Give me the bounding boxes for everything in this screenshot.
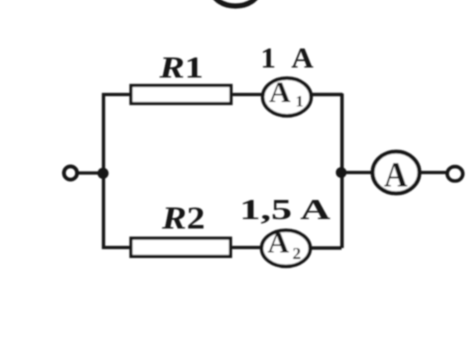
wire: top-left horizontal to R1 [102, 93, 132, 96]
node (left junction) [97, 168, 108, 179]
wire: T1 to left node [78, 171, 101, 174]
wire: A2 to right vertical [310, 246, 342, 249]
svg-text:1: 1 [296, 94, 304, 111]
ammeter A2 [262, 230, 311, 266]
svg-text:R2: R2 [161, 201, 205, 236]
wire: R2 to ammeter A2 [230, 246, 263, 249]
wire: R1 to ammeter A1 [231, 93, 265, 96]
resistor R1 [131, 86, 231, 104]
wire: bottom-left horizontal to R2 [102, 246, 132, 249]
svg-text:A: A [269, 76, 291, 109]
svg-text:A: A [268, 227, 290, 260]
wire: right node to ammeter A [342, 171, 375, 174]
cropped figure arc (top edge) [213, 0, 259, 6]
wire: right vertical branch [340, 94, 344, 249]
terminal T2 (right) [447, 167, 463, 181]
svg-text:1 A: 1 A [261, 44, 315, 75]
resistor R2 [131, 238, 231, 256]
svg-text:A: A [384, 155, 408, 195]
wire: left vertical branch [102, 93, 105, 249]
node (right junction) [336, 167, 347, 178]
ammeter A [373, 152, 420, 194]
svg-text:1,5 A: 1,5 A [240, 194, 331, 226]
wire: A to terminal T2 [418, 171, 448, 174]
wire: A1 to right vertical [309, 93, 343, 96]
terminal T1 (left) [64, 166, 77, 179]
svg-text:2: 2 [293, 244, 302, 263]
ammeter A1 [263, 78, 311, 116]
svg-text:R1: R1 [158, 50, 203, 85]
